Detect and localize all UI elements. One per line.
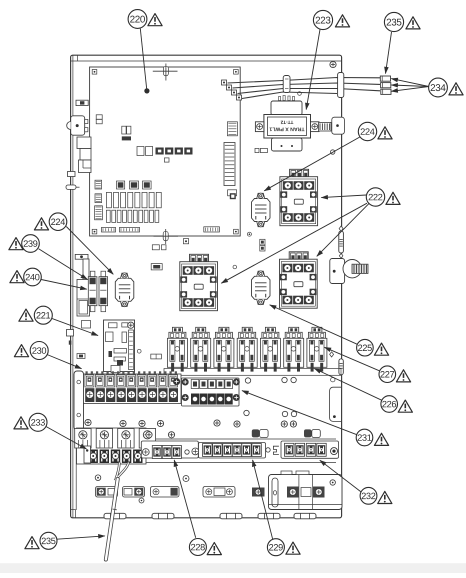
cable clamp 2 [304,429,320,437]
leader 239 [39,249,88,279]
callout 233 [14,413,47,431]
cable clamp 1 [252,429,268,437]
callout 235 bottom [25,532,57,549]
wire ferrules (item 234) [380,76,391,94]
screw below PCB [183,239,188,244]
leader 226 [315,369,382,401]
callout 225 [357,339,389,356]
capacitor C1 (item 224) [115,273,134,307]
left column box [83,259,89,281]
bottom screw plates [96,487,236,498]
leader 222b [317,204,369,257]
terminal strip TB1 (item 230) [84,371,182,403]
wall tab and nub [67,321,91,345]
leader 220 [140,29,149,94]
callout 239 [9,235,39,253]
corner bracket bottom right [330,387,342,421]
leader 235 top [386,32,392,74]
left rail connector [76,100,88,105]
leader 224 left [66,227,113,275]
main control PCB [90,67,241,236]
left rail stacked boxes [77,137,91,173]
leader 232 [320,460,361,492]
terminal group C (item 229) [199,443,271,459]
screw top right [330,61,336,67]
leader 225 [270,305,358,344]
screw below transformer [331,150,335,154]
harness clamp 2 at enclosure edge [338,73,344,98]
callout 224 left [34,213,66,231]
heavy terminal rail [77,439,336,463]
wire harness W1 [228,78,381,99]
fuse block right of transformer [319,117,345,134]
stud bolt left [66,185,80,189]
left column tall box [77,280,90,317]
breaker block bottom right [269,471,343,510]
oval hole and bracket [273,446,279,454]
callout 223 [313,10,349,29]
relay strip V2 (item 240) [99,271,108,312]
callout 234 [429,78,464,97]
leader 222c [221,203,367,283]
leader 224 right [264,137,360,191]
harness PCB connectors [222,80,242,100]
stacked connector mid [260,239,265,251]
small terminals below transformer [255,148,267,152]
leader 222a [321,195,366,198]
enclosure outer cabinet [71,55,342,518]
misc small parts mid-left [151,245,166,270]
callout 221 [19,306,52,324]
capacitor C2 (item 224) [252,193,271,227]
bottom feet [104,513,316,519]
bottom-left corner step [71,510,76,518]
standoff screw bottom center [154,229,179,244]
callout 227 [379,366,411,383]
transformer T1 (item 223) [255,92,319,151]
small plate left of breaker [252,488,265,497]
leader 240 [41,280,87,290]
thermostat well fitting [330,259,368,284]
standoff screw top center [153,64,178,81]
panel screws row [85,419,297,427]
leader 221 [52,318,99,335]
terminal group B (item 228) [141,432,198,459]
callout 222 [366,188,400,206]
contactor K2 (item 222) [180,254,218,310]
bottom gray bar [0,563,466,573]
panel holes row [244,377,297,416]
small bolt left [68,172,76,177]
small circle node A [233,265,237,269]
callout 230 [14,342,48,360]
small connector on wall y354 [77,354,85,359]
harness clamp 1 [283,76,290,93]
callout 224 right [358,122,392,140]
leader 235 bottom [57,536,105,539]
callout 220 [128,10,162,29]
leader 223 [306,30,320,110]
timer board (item 221) [104,320,135,373]
relay strip V1 (item 239) [88,271,97,312]
callout 235 top [384,12,420,31]
fuse/relay bank (items 225-227) [164,327,341,375]
callout 228 [189,539,221,556]
leaders 234 [391,79,429,92]
latch capsule right upper [339,226,344,258]
power terminal group A (item 233) [75,428,156,464]
small connector right of board [151,354,162,359]
callout 229 [267,539,300,556]
leader 230 [47,355,82,369]
sensor probe cable (item 235) [106,463,129,560]
leader 228 [174,460,196,538]
capacitor C3 (item 227) [252,271,271,305]
left rail connector 2 [75,254,88,259]
left lower channel [74,371,84,510]
terminal block TB2 (item 231) [182,378,240,406]
hinge bracket left [67,116,88,135]
leader 229 [253,460,273,539]
panel circle left of TB2 [173,378,179,384]
callout 232 [360,487,392,504]
panel screw circle [137,349,141,353]
contactor K3 (item 222) [280,252,318,308]
callout 240 [10,268,41,286]
bottom panel holes [95,475,189,503]
leader 231 [242,391,357,435]
small circle node B [247,232,251,236]
callout 231 [356,429,388,446]
contactor K1 (item 222) [280,169,318,225]
terminal group D (item 232) [281,441,339,458]
latch capsule right lower [330,352,344,382]
leader 227 [325,347,380,371]
leader 233 [46,427,87,450]
callout 226 [381,396,412,413]
PCB components [95,115,238,232]
